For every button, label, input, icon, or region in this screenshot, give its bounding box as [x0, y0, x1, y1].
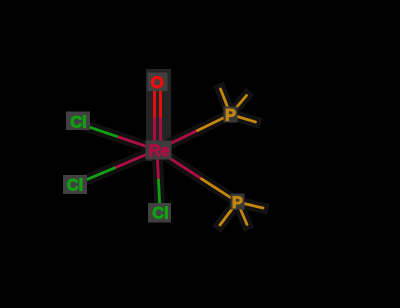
wire P2-methyl down-left [220, 202, 237, 225]
atom P2 label background [231, 194, 245, 210]
wire P1-methyl up-left [221, 89, 231, 115]
wire Re-Cl1 bond (Cl half, green) [79, 124, 117, 137]
wire Re=O double bond right line (O half, red) [159, 82, 162, 116]
atom P1 label background [224, 107, 238, 123]
svg-text:O: O [151, 74, 164, 92]
wire Re-Cl3 bond (Re half, crimson) [157, 150, 159, 180]
wire Re=O double bond right line (Re half, crimson) [159, 116, 162, 150]
atom O label background [148, 73, 168, 92]
svg-text:P: P [232, 194, 243, 212]
atom Cl2 label background [63, 175, 87, 194]
JPEG-artifact gray strip behind O=Re double bond [146, 69, 171, 161]
svg-text:Cl: Cl [152, 205, 169, 223]
svg-text:Cl: Cl [70, 114, 87, 132]
wire P2-methyl right [237, 202, 263, 208]
atom Re label background [146, 141, 172, 160]
svg-text:P: P [225, 107, 236, 125]
wire Re-Cl1 bond (Re half, crimson) [117, 136, 158, 150]
wire Re=O double bond left line (Re half, crimson) [153, 116, 156, 150]
wire Re-Cl2 bond (Re half, crimson) [115, 150, 158, 168]
wire Re-P1 bond (P half, orange) [198, 115, 231, 131]
atom Cl1 label background [66, 112, 90, 131]
wire Re-P2 bond (P half, orange) [202, 179, 238, 202]
svg-text:Cl: Cl [67, 177, 84, 195]
wire P1-methyl up-right [231, 96, 247, 115]
wire Re-Cl3 bond (Cl half, green) [159, 180, 161, 212]
wire P1-methyl right [231, 115, 256, 123]
wire Re-P1 bond (Re half, crimson) [157, 131, 198, 151]
svg-text:Re: Re [148, 142, 169, 160]
wire P2-methyl down-right [237, 202, 247, 225]
wire Re=O double bond left line (O half, red) [153, 82, 156, 116]
wire Re-Cl2 bond (Cl half, green) [75, 168, 115, 185]
atom Cl3 label background [148, 203, 171, 223]
wire Re-P2 bond (Re half, crimson) [157, 150, 202, 179]
